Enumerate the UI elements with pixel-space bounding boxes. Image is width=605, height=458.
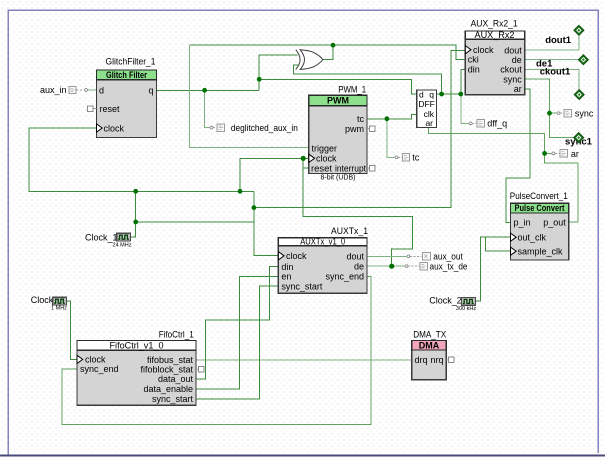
svg-text:clock: clock: [473, 45, 494, 55]
svg-text:sync: sync: [575, 109, 594, 119]
dashed stub: ar terminal: [552, 152, 560, 155]
svg-text:q: q: [148, 85, 153, 95]
svg-text:DMA_TX: DMA_TX: [413, 330, 447, 341]
wire: branch to deglitched_aux_in terminal: [205, 90, 210, 127]
svg-text:ar: ar: [514, 84, 522, 94]
wire: AUX_Rx2 de to de1: [525, 59, 579, 61]
svg-text:dout: dout: [346, 252, 364, 262]
svg-text:trigger: trigger: [312, 143, 338, 153]
junction: clock net to AUX_Rx2 clock: [252, 205, 257, 210]
svg-text:Clock_1: Clock_1: [85, 232, 118, 242]
svg-text:clock: clock: [104, 123, 125, 133]
svg-text:data_out: data_out: [158, 374, 194, 384]
wire: clock net from GlitchFilter clock pin: [29, 128, 278, 256]
svg-text:reset: reset: [311, 163, 333, 173]
wire: FifoCtrl data_enable to AUXTx en: [196, 276, 278, 389]
wire: AUXTx sync_end loop to FifoCtrl sync_end: [62, 276, 371, 424]
junction: Clock_1 node: [133, 220, 138, 225]
junction: q net to deglitched_aux_in branch: [202, 88, 207, 93]
svg-text:PWM: PWM: [327, 96, 349, 106]
dashed stub: aux_out terminal: [407, 255, 421, 258]
svg-text:DMA: DMA: [419, 340, 440, 350]
junction: clock net to Clock_1: [133, 189, 138, 194]
svg-text:deglitched_aux_in: deglitched_aux_in: [231, 123, 298, 133]
dashed stub: deglitched_aux_in terminal: [210, 126, 217, 129]
wire: clock net branch to AUX_Rx2 clock: [254, 50, 465, 207]
svg-text:AUX_Rx2_1: AUX_Rx2_1: [471, 19, 518, 30]
svg-text:pwm: pwm: [345, 124, 364, 134]
junction: DFF q to XOR input B: [439, 92, 444, 97]
dashed stub: sync terminal: [557, 112, 564, 115]
terminal deglitched_aux_in: [217, 123, 298, 133]
wire: AUX_Rx2 sync to sync1 and sync terminal: [525, 79, 574, 138]
block AUX_Rx2_1: [465, 19, 524, 95]
svg-text:sync_end: sync_end: [325, 272, 364, 282]
wire: AUXTx de to aux_tx_de terminal: [367, 265, 405, 267]
block DMA_TX: [412, 330, 454, 380]
wire: Clock 1MHz to FifoCtrl clock: [66, 301, 77, 359]
svg-text:PWM_1: PWM_1: [338, 84, 366, 95]
output terminal ckout1: [540, 67, 585, 100]
svg-text:ar: ar: [425, 118, 433, 128]
svg-text:dout1: dout1: [545, 35, 572, 46]
output terminal de1: [536, 55, 588, 70]
junction: XOR output on cki net: [331, 43, 336, 48]
svg-text:p_out: p_out: [543, 218, 566, 228]
svg-text:sync_start: sync_start: [281, 281, 323, 291]
svg-text:ckout1: ckout1: [540, 67, 571, 78]
wire: AUXTx de net to PWM reset: [303, 158, 412, 266]
svg-text:FifoCtrl_1: FifoCtrl_1: [159, 330, 194, 341]
dashed stub: aux_tx_de terminal: [405, 265, 421, 268]
wire: FifoCtrl fifobus_stat to DMA drq: [196, 359, 412, 361]
block DFF U_dff: [417, 90, 437, 128]
junction: q net to DFF d branch: [257, 77, 262, 82]
svg-text:aux_in: aux_in: [40, 85, 67, 95]
terminal dff_q: [477, 119, 507, 129]
wire: AUXTx dout to aux_out terminal: [367, 255, 407, 257]
junction: DFF q to din and dff_q: [458, 92, 463, 97]
terminal aux_out: [423, 251, 464, 261]
XOR gate U_xor: [296, 50, 323, 70]
terminal aux_in: [40, 85, 76, 95]
junction: clock net to PWM clock: [238, 189, 243, 194]
svg-text:Clock: Clock: [31, 295, 54, 305]
svg-text:AUX_Rx2: AUX_Rx2: [475, 30, 515, 41]
wire: AUX_Rx2 dout to dout1: [525, 35, 579, 50]
svg-text:tc: tc: [412, 153, 420, 163]
terminal ar: [560, 149, 579, 159]
junction: ar net to ar terminal: [542, 151, 547, 156]
dashed stub: tc terminal: [395, 156, 403, 159]
wire: DFF q branch to dff_q terminal: [461, 94, 469, 123]
svg-text:FifoCtrl_v1_0: FifoCtrl_v1_0: [110, 341, 164, 352]
clock source Clock_2 300 kHz: [429, 295, 476, 311]
wire: clock net branch to Clock_1: [130, 191, 254, 237]
output terminal sync1: [565, 133, 593, 148]
svg-text:drq: drq: [415, 355, 428, 365]
dashed stub: aux_in to GlitchFilter d: [76, 89, 97, 92]
wire: FifoCtrl sync_start to AUXTx sync_start: [196, 286, 278, 399]
wire: tc branch to tc terminal: [387, 119, 395, 158]
svg-text:AUXTx_v1_0: AUXTx_v1_0: [300, 237, 345, 248]
block AUXTx_1: [278, 226, 368, 293]
svg-text:din: din: [281, 262, 293, 272]
junction: PWM clock node: [301, 156, 306, 161]
svg-text:ar: ar: [571, 149, 579, 159]
svg-text:aux_tx_de: aux_tx_de: [430, 261, 468, 271]
svg-text:nrq: nrq: [430, 355, 443, 365]
block PWM_1: [309, 84, 375, 181]
wire: XOR output to AUX_Rx2 cki (H1): [190, 45, 466, 59]
wire: clock net branch to PWM clock: [240, 158, 309, 191]
clock source Clock_1 24 MHz: [85, 232, 132, 248]
output terminal dout1: [545, 25, 584, 46]
svg-text:clock: clock: [85, 355, 106, 365]
svg-text:sync_end: sync_end: [80, 364, 119, 374]
wire: GlitchFilter q net to XOR input A: [157, 55, 298, 91]
svg-text:reset: reset: [100, 104, 121, 114]
block GlitchFilter_1: [88, 57, 157, 138]
svg-text:d: d: [99, 85, 104, 95]
svg-text:en: en: [281, 272, 291, 282]
svg-text:clock: clock: [286, 251, 307, 261]
svg-text:24 MHz: 24 MHz: [113, 243, 132, 249]
wire: FifoCtrl data_out to AUXTx din: [196, 267, 278, 379]
terminal aux_tx_de: [420, 261, 468, 271]
svg-text:interrupt: interrupt: [335, 163, 366, 173]
svg-text:dout: dout: [504, 45, 522, 55]
svg-text:ckout: ckout: [500, 65, 522, 75]
svg-text:p_in: p_in: [514, 218, 531, 228]
svg-text:Glitch Filter: Glitch Filter: [106, 70, 147, 80]
clock source Clock 1 MHz: [31, 295, 67, 311]
wire: XOR net branch to PWM trigger: [190, 45, 309, 147]
terminal sync: [564, 109, 594, 119]
wire: net to DFF d (H3): [259, 79, 417, 94]
svg-text:cki: cki: [468, 55, 479, 65]
svg-text:data_enable: data_enable: [143, 384, 193, 394]
wire: DFF q to AUX_Rx2 din: [437, 69, 466, 94]
svg-text:sync: sync: [503, 74, 522, 84]
wire: AUX_Rx2 ar to PulseConvert p_in: [506, 89, 530, 222]
svg-text:PulseConvert_1: PulseConvert_1: [510, 191, 568, 202]
svg-text:din: din: [468, 65, 480, 75]
svg-text:de: de: [354, 261, 364, 271]
wire: DFF ar net to ar terminal and PulseConvert p_out: [429, 128, 578, 223]
svg-text:clock: clock: [316, 154, 337, 164]
junction: PWM tc to tc terminal: [385, 116, 390, 121]
block PulseConvert_1: [510, 191, 569, 260]
wire: PWM tc to DFF clk: [367, 114, 417, 118]
svg-text:GlitchFilter_1: GlitchFilter_1: [106, 57, 156, 68]
svg-text:de: de: [512, 55, 522, 65]
dashed stub: dff_q terminal: [469, 122, 477, 125]
svg-text:dff_q: dff_q: [487, 119, 507, 129]
block FifoCtrl_1: [77, 330, 204, 406]
svg-text:8-bit (UDB): 8-bit (UDB): [320, 175, 355, 182]
junction: AUXTx de node: [389, 264, 394, 269]
svg-text:AUXTx_1: AUXTx_1: [331, 226, 368, 237]
svg-text:out_clk: out_clk: [518, 233, 547, 243]
terminal tc: [403, 153, 420, 163]
svg-text:DFF: DFF: [418, 99, 435, 109]
svg-text:Clock_2: Clock_2: [429, 295, 462, 305]
svg-text:sync_start: sync_start: [152, 394, 194, 404]
svg-text:aux_out: aux_out: [433, 251, 463, 261]
svg-text:tc: tc: [357, 114, 365, 124]
svg-text:1 MHz: 1 MHz: [51, 306, 67, 312]
svg-text:300 kHz: 300 kHz: [456, 306, 476, 312]
junction: sync net to sync terminal: [547, 111, 552, 116]
svg-text:Pulse Convert: Pulse Convert: [515, 203, 565, 213]
svg-text:fifoblock_stat: fifoblock_stat: [140, 364, 193, 374]
svg-text:sample_clk: sample_clk: [518, 247, 564, 257]
wire: XOR input B wrap from DFF q net: [293, 65, 441, 94]
wire: Clock_2 to PulseConvert out_clk and sample_clk: [476, 237, 511, 301]
wire: AUX_Rx2 ckout to ckout1: [525, 70, 580, 90]
